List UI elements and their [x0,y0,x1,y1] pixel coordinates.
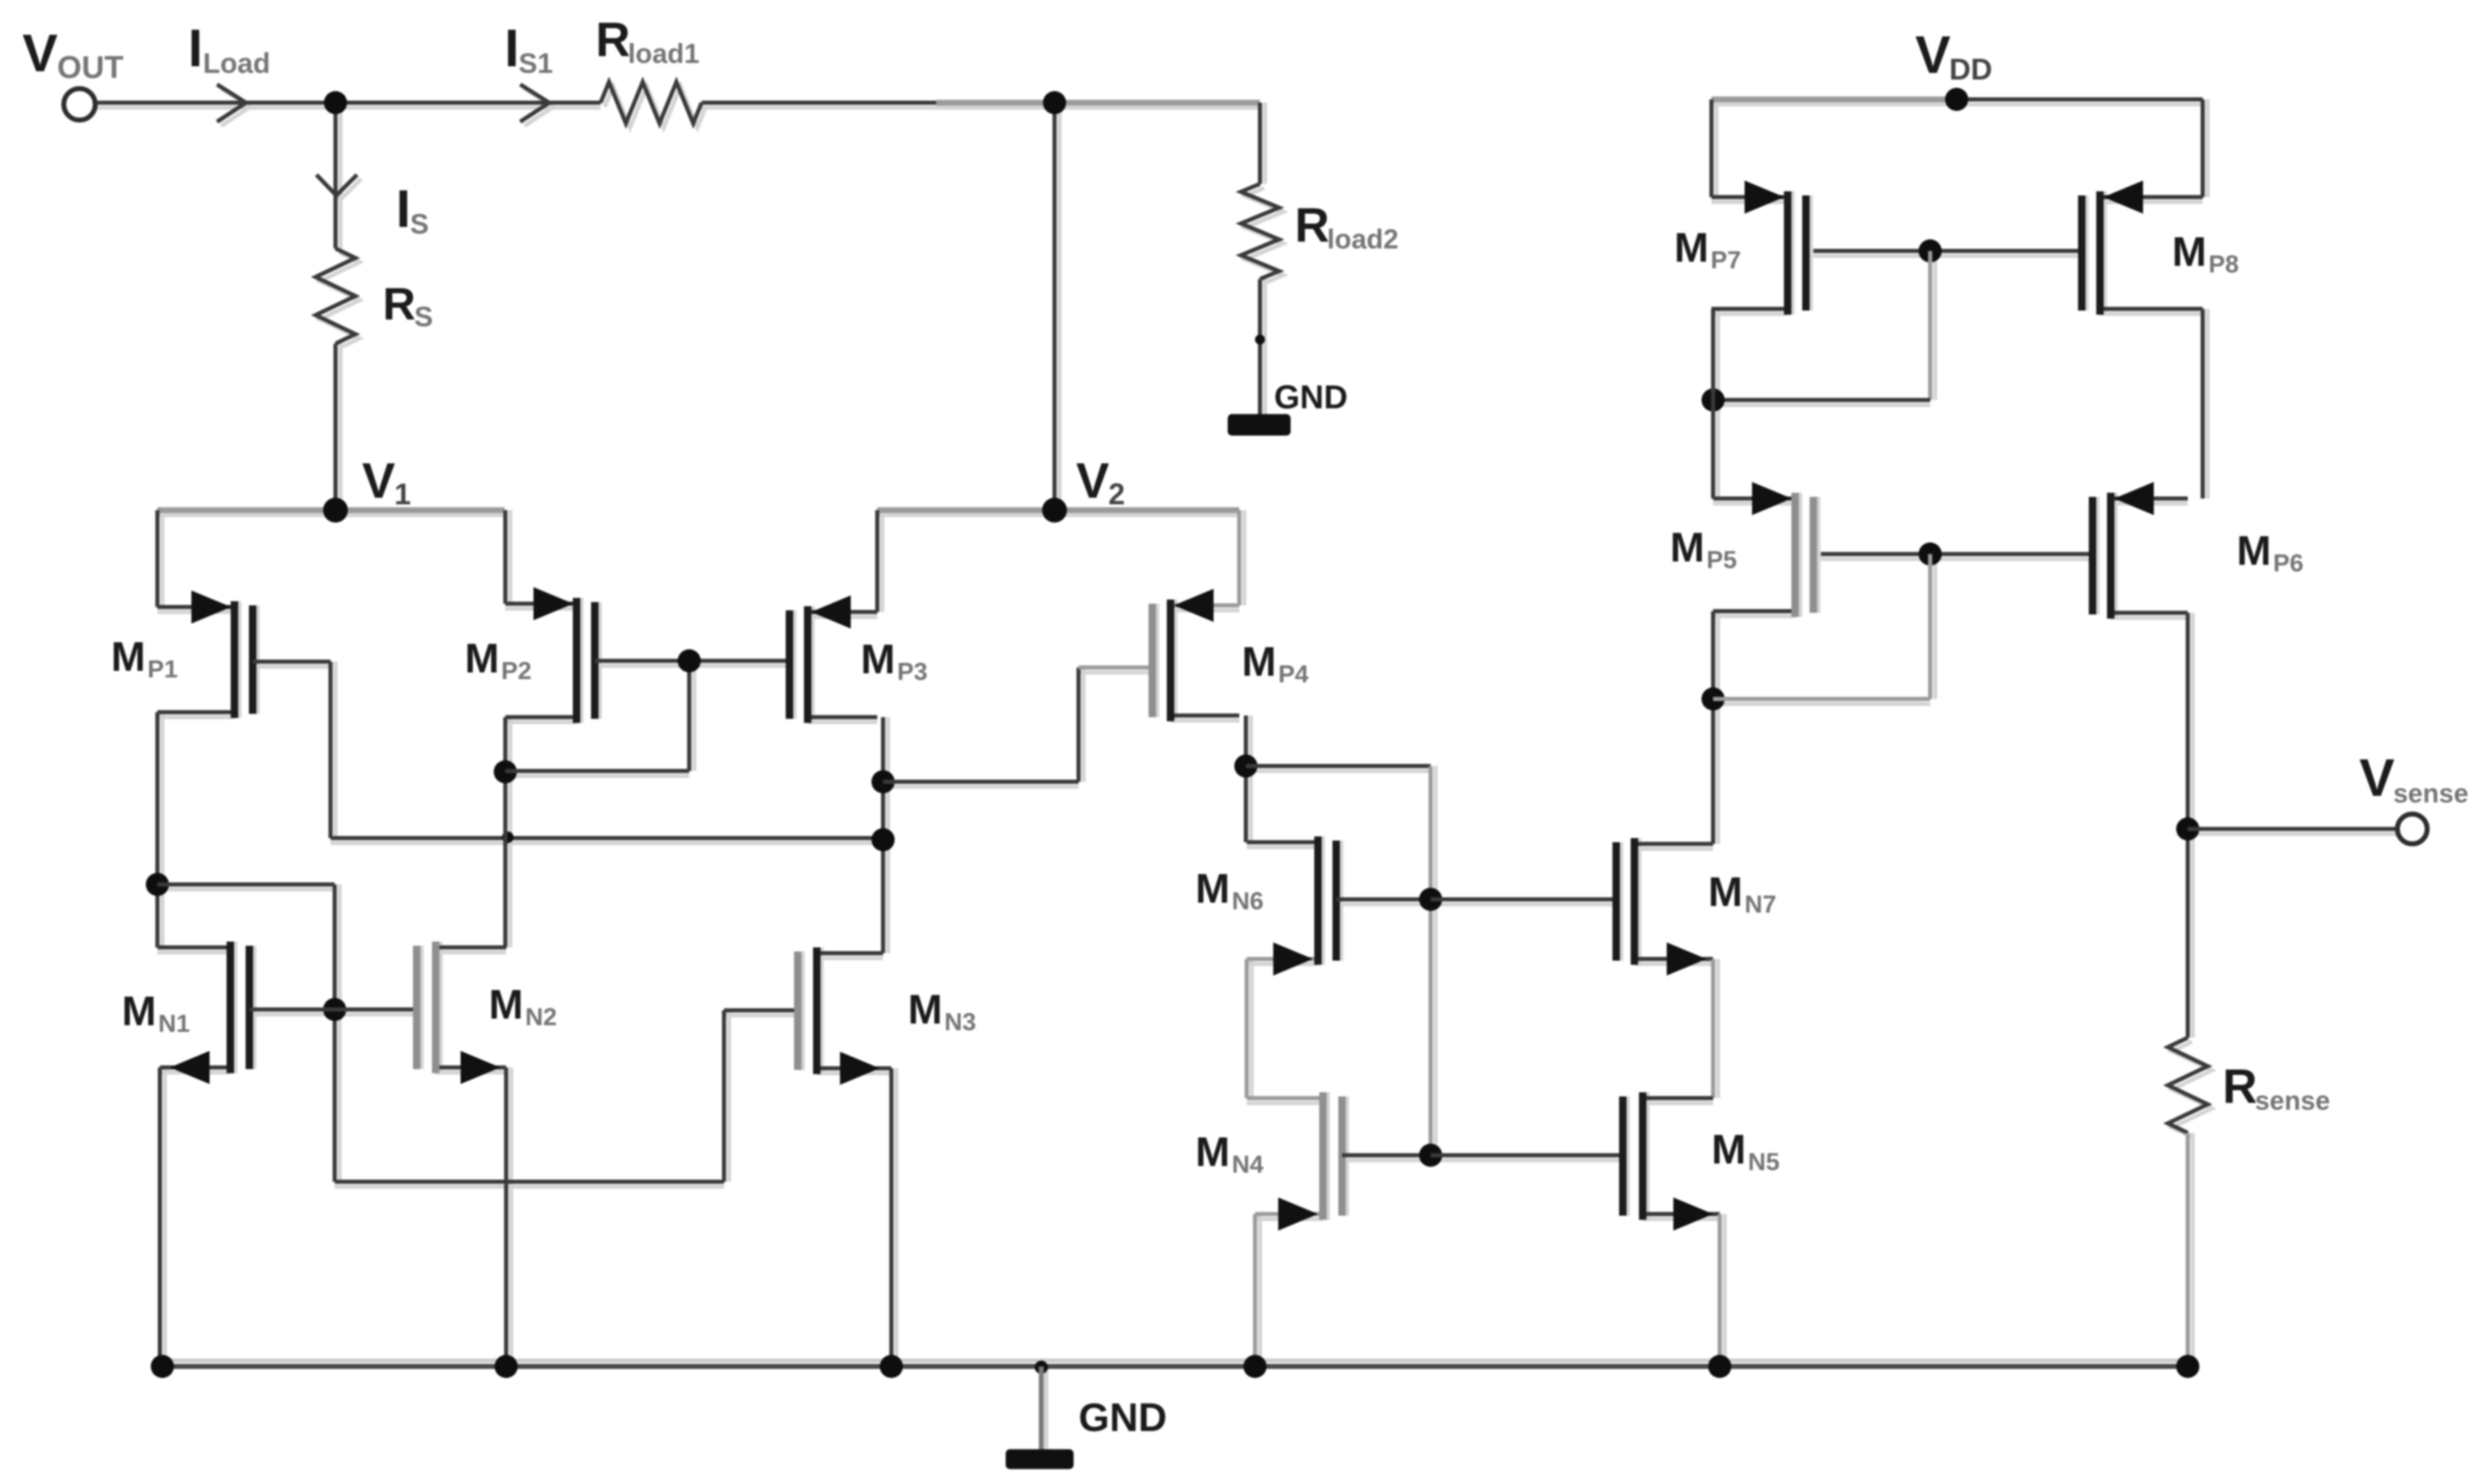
svg-text:S: S [414,301,433,333]
svg-text:M: M [2237,528,2271,574]
svg-text:M: M [861,636,895,682]
svg-text:V: V [1915,25,1951,84]
svg-text:M: M [1195,1129,1230,1175]
svg-text:V: V [362,453,395,508]
svg-text:M: M [1674,224,1709,271]
svg-text:M: M [1711,1126,1746,1173]
svg-text:N4: N4 [1232,1151,1264,1178]
svg-text:I: I [396,179,411,238]
svg-text:P4: P4 [1278,661,1309,688]
svg-text:M: M [1195,865,1230,912]
svg-text:V: V [1076,453,1109,508]
svg-text:N3: N3 [944,1009,976,1036]
svg-text:DD: DD [1949,52,1992,86]
svg-text:M: M [1242,638,1277,685]
svg-text:GND: GND [1079,1396,1167,1440]
svg-text:P6: P6 [2273,550,2304,577]
svg-text:V: V [22,23,58,83]
svg-text:M: M [2172,229,2207,275]
svg-text:sense: sense [2255,1086,2330,1115]
svg-text:N5: N5 [1748,1149,1779,1176]
svg-text:P2: P2 [501,658,532,685]
svg-text:OUT: OUT [57,51,123,85]
svg-text:V: V [2359,748,2395,807]
svg-text:P5: P5 [1706,547,1737,574]
svg-text:Load: Load [203,48,270,79]
svg-text:P7: P7 [1711,247,1741,274]
svg-text:R: R [383,278,416,330]
svg-text:P1: P1 [147,656,178,683]
svg-text:GND: GND [1274,379,1348,416]
svg-text:I: I [188,18,203,78]
svg-text:R: R [596,13,630,67]
svg-text:P3: P3 [897,658,928,686]
svg-text:R: R [2223,1060,2257,1114]
svg-text:sense: sense [2393,778,2469,808]
svg-text:N7: N7 [1745,891,1776,918]
svg-text:M: M [111,634,146,680]
svg-text:load2: load2 [1327,224,1398,254]
svg-text:1: 1 [394,477,411,511]
svg-text:M: M [122,988,157,1034]
svg-text:N2: N2 [525,1004,557,1031]
svg-text:load1: load1 [628,38,699,69]
svg-text:M: M [1708,869,1743,915]
svg-text:N1: N1 [158,1010,190,1038]
svg-text:P8: P8 [2208,251,2239,278]
svg-text:S: S [410,209,429,240]
svg-text:N6: N6 [1232,888,1263,915]
svg-text:M: M [1670,524,1705,571]
svg-text:M: M [908,986,943,1033]
svg-text:M: M [465,635,500,682]
svg-text:2: 2 [1108,477,1125,511]
svg-text:M: M [489,981,524,1028]
svg-text:R: R [1295,199,1330,253]
svg-text:S1: S1 [519,48,553,79]
svg-text:I: I [504,18,519,78]
